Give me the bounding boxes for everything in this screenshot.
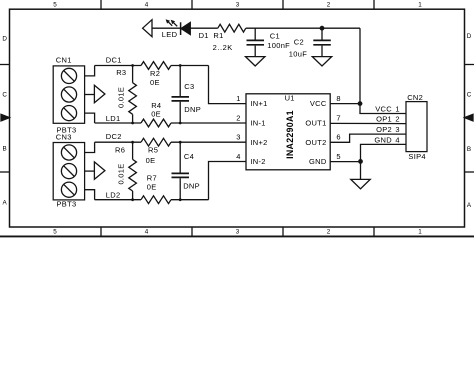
svg-text:R2: R2 xyxy=(150,69,160,78)
wire xyxy=(95,199,141,201)
svg-text:4: 4 xyxy=(145,229,149,236)
wire xyxy=(85,66,95,76)
svg-text:DC1: DC1 xyxy=(106,56,122,65)
svg-text:INA2290A1: INA2290A1 xyxy=(285,110,295,159)
dc marker DC2 xyxy=(94,132,121,179)
svg-text:2: 2 xyxy=(327,229,331,236)
svg-text:2: 2 xyxy=(236,113,240,122)
wire xyxy=(85,113,95,123)
svg-text:2: 2 xyxy=(327,2,331,9)
svg-text:5: 5 xyxy=(53,2,57,9)
wire xyxy=(190,27,218,29)
svg-text:D: D xyxy=(2,35,7,42)
svg-text:0.01E: 0.01E xyxy=(116,87,125,108)
node junction xyxy=(131,64,134,67)
svg-text:PBT3: PBT3 xyxy=(57,199,77,208)
svg-text:R3: R3 xyxy=(116,68,126,77)
svg-text:A: A xyxy=(2,200,7,207)
node junction xyxy=(131,198,134,201)
wire xyxy=(361,144,407,179)
resistor R2 xyxy=(141,62,171,88)
svg-text:1: 1 xyxy=(418,229,422,236)
svg-text:VCC: VCC xyxy=(310,99,327,108)
capacitor C1 xyxy=(247,28,291,56)
connector CN1 xyxy=(53,55,84,134)
wire xyxy=(85,190,95,200)
svg-text:3: 3 xyxy=(236,2,240,9)
svg-text:LD1: LD1 xyxy=(106,114,121,123)
port arrow P1 xyxy=(143,20,152,37)
node junction xyxy=(358,159,363,164)
wire xyxy=(209,66,247,104)
connector CN3 xyxy=(53,132,84,208)
svg-text:R6: R6 xyxy=(115,145,125,154)
svg-text:SIP4: SIP4 xyxy=(408,152,425,161)
svg-text:R1: R1 xyxy=(213,31,223,40)
node junction xyxy=(320,26,325,31)
svg-text:B: B xyxy=(2,145,6,152)
svg-text:3: 3 xyxy=(395,125,399,134)
svg-text:4: 4 xyxy=(236,152,240,161)
wire xyxy=(95,141,141,143)
svg-text:CN1: CN1 xyxy=(56,55,72,64)
wire xyxy=(171,122,246,124)
svg-text:DC2: DC2 xyxy=(106,132,122,141)
svg-text:LED: LED xyxy=(162,30,178,39)
svg-text:C1: C1 xyxy=(270,32,280,41)
wire xyxy=(360,104,406,114)
svg-text:8: 8 xyxy=(336,94,340,103)
resistor R3 xyxy=(116,66,136,124)
wire xyxy=(85,170,95,172)
wire xyxy=(171,141,246,143)
svg-text:OP1: OP1 xyxy=(376,115,392,124)
wire xyxy=(330,103,360,105)
svg-text:C2: C2 xyxy=(294,38,304,47)
svg-text:2..2K: 2..2K xyxy=(213,43,233,52)
svg-text:CN3: CN3 xyxy=(56,132,72,141)
IC U1 INA2290A1 xyxy=(246,94,330,170)
svg-text:10uF: 10uF xyxy=(289,49,307,58)
svg-text:1: 1 xyxy=(395,104,399,113)
wire xyxy=(330,134,406,142)
node junction xyxy=(131,122,134,125)
svg-text:0.01E: 0.01E xyxy=(116,163,125,184)
svg-text:IN-1: IN-1 xyxy=(250,119,265,128)
svg-text:3: 3 xyxy=(236,229,240,236)
node junction xyxy=(179,64,182,67)
svg-text:OUT1: OUT1 xyxy=(305,119,326,128)
svg-text:IN+1: IN+1 xyxy=(250,99,267,108)
wire xyxy=(330,161,360,163)
svg-text:B: B xyxy=(467,146,471,153)
svg-text:4: 4 xyxy=(145,2,149,9)
ground xyxy=(312,57,331,66)
svg-text:C: C xyxy=(2,91,7,98)
wire xyxy=(359,28,361,103)
svg-text:CN2: CN2 xyxy=(407,93,423,102)
wire xyxy=(330,122,406,124)
svg-text:GND: GND xyxy=(309,157,327,166)
wire xyxy=(85,142,95,152)
svg-text:D: D xyxy=(467,33,472,40)
node junction xyxy=(179,141,182,144)
dc marker DC1 xyxy=(94,56,121,103)
svg-text:6: 6 xyxy=(336,133,340,142)
LED D1 xyxy=(162,19,209,40)
svg-text:U1: U1 xyxy=(285,94,295,103)
capacitor C4 xyxy=(172,142,200,200)
svg-text:VCC: VCC xyxy=(375,104,392,113)
capacitor C2 xyxy=(289,28,331,58)
svg-text:C: C xyxy=(467,91,472,98)
svg-text:R7: R7 xyxy=(147,174,157,183)
svg-text:C4: C4 xyxy=(184,152,194,161)
svg-text:IN+2: IN+2 xyxy=(250,138,267,147)
svg-text:DNP: DNP xyxy=(183,181,200,190)
svg-text:A: A xyxy=(467,202,472,209)
ground xyxy=(351,179,370,188)
svg-text:DNP: DNP xyxy=(184,105,201,114)
wire xyxy=(152,27,181,29)
node junction xyxy=(358,101,363,106)
svg-text:1: 1 xyxy=(418,2,422,9)
svg-text:IN-2: IN-2 xyxy=(250,157,265,166)
svg-text:0E: 0E xyxy=(151,110,161,119)
connector CN2 xyxy=(406,93,427,161)
svg-text:GND: GND xyxy=(374,135,392,144)
svg-text:OP2: OP2 xyxy=(376,125,392,134)
svg-text:D1: D1 xyxy=(199,31,209,40)
wire xyxy=(95,122,141,124)
svg-text:0E: 0E xyxy=(146,156,156,165)
svg-text:5: 5 xyxy=(53,229,57,236)
svg-text:3: 3 xyxy=(236,133,240,142)
resistor R7 xyxy=(141,174,171,204)
svg-text:7: 7 xyxy=(336,113,340,122)
node junction xyxy=(131,141,134,144)
svg-text:C3: C3 xyxy=(184,82,194,91)
ground xyxy=(246,57,265,66)
resistor R1 xyxy=(213,24,246,52)
wire xyxy=(95,65,141,67)
capacitor C3 xyxy=(172,66,202,124)
resistor R6 xyxy=(115,142,136,200)
resistor R5 xyxy=(141,138,171,165)
svg-text:1: 1 xyxy=(236,94,240,103)
wire xyxy=(209,162,247,200)
svg-text:OUT2: OUT2 xyxy=(305,138,326,147)
wire xyxy=(246,27,360,29)
svg-text:LD2: LD2 xyxy=(106,191,121,200)
wire xyxy=(171,65,209,67)
svg-text:5: 5 xyxy=(336,152,340,161)
svg-text:4: 4 xyxy=(395,135,399,144)
node junction xyxy=(179,198,182,201)
svg-text:R5: R5 xyxy=(148,145,158,154)
svg-text:0E: 0E xyxy=(150,78,160,87)
svg-text:2: 2 xyxy=(395,115,399,124)
resistor R4 xyxy=(141,101,171,127)
svg-text:100nF: 100nF xyxy=(267,41,290,50)
wire xyxy=(171,199,209,201)
node junction xyxy=(179,122,182,125)
svg-text:0E: 0E xyxy=(147,183,157,192)
wire xyxy=(85,94,95,96)
